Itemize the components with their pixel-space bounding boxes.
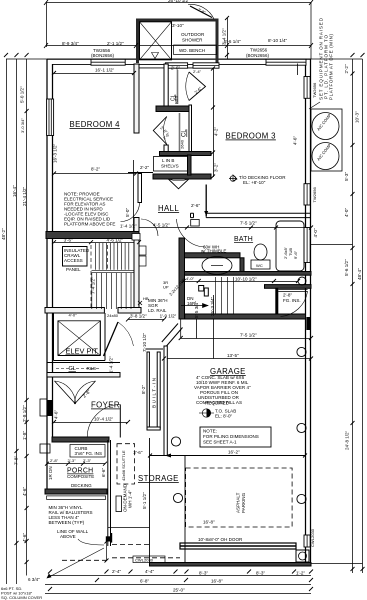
svg-text:5'-0": 5'-0": [125, 208, 130, 217]
svg-text:4'-0": 4'-0": [344, 208, 349, 217]
svg-text:5'-0 1/2": 5'-0 1/2": [20, 86, 25, 103]
svg-text:24'-8 1/2": 24'-8 1/2": [345, 430, 350, 450]
svg-text:WC: WC: [256, 263, 263, 268]
closet rod dashed: [56, 368, 99, 370]
window right wall bedroom3 top: [304, 77, 310, 99]
wall wh closet right: [240, 258, 244, 272]
to slab symbol: [202, 409, 210, 417]
svg-text:FOYER: FOYER: [91, 401, 120, 410]
svg-text:2'-2": 2'-2": [344, 64, 349, 73]
svg-text:3'-8 1/2": 3'-8 1/2": [130, 314, 147, 319]
svg-text:(BON2656): (BON2656): [246, 53, 269, 58]
svg-text:2'-6": 2'-6": [133, 450, 142, 455]
svg-text:16'-4": 16'-4": [12, 185, 17, 197]
door foyer entry arc: [87, 405, 120, 438]
garage diag wall b: [167, 328, 183, 347]
door foyer double arcs: [55, 381, 76, 404]
svg-text:7'-8": 7'-8": [14, 456, 19, 465]
svg-text:ACCESS: ACCESS: [64, 258, 83, 263]
shower right wall: [216, 19, 219, 64]
svg-text:1'-2": 1'-2": [296, 571, 305, 576]
svg-text:2'-8 1/2": 2'-8 1/2": [22, 405, 27, 422]
shower door leaf: [190, 6, 212, 18]
svg-text:2'-3": 2'-3": [68, 458, 77, 463]
wall bedroom3 bottom: [191, 213, 312, 217]
storage window label box: [133, 556, 165, 563]
garage top dim: [181, 338, 311, 340]
built-in top: [145, 348, 163, 350]
svg-text:5'-3": 5'-3": [344, 172, 349, 181]
bottom dim 2: [45, 584, 311, 586]
porch bottom band: [45, 489, 107, 494]
svg-text:2'-8": 2'-8": [283, 293, 292, 298]
svg-text:5'-6 1/2": 5'-6 1/2": [344, 259, 349, 276]
wall top under shower lower line: [136, 67, 219, 69]
shower door arc: [188, 4, 214, 19]
decking flag symbol: [229, 175, 237, 181]
window center 2: [193, 63, 219, 68]
svg-text:FOR PILING DIMENSIONS: FOR PILING DIMENSIONS: [203, 434, 259, 439]
svg-text:2'-6": 2'-6": [191, 203, 200, 208]
wc bowl: [254, 244, 267, 260]
svg-text:PLATFORM ABOVE DFE: PLATFORM ABOVE DFE: [64, 222, 115, 227]
door bedroom4 arcs: [163, 117, 166, 145]
stair dim line y242: [54, 242, 139, 244]
shower top wall: [136, 19, 219, 22]
svg-text:SEE SHEET A-1: SEE SHEET A-1: [203, 440, 237, 445]
svg-text:2'-8": 2'-8": [50, 458, 59, 463]
stair dashed edge: [90, 245, 92, 309]
svg-text:STORAGE: STORAGE: [138, 474, 179, 483]
svg-text:1'-8": 1'-8": [22, 431, 27, 440]
svg-text:7'-5 1/2": 7'-5 1/2": [240, 333, 257, 338]
ac pad: [311, 109, 342, 171]
svg-text:BATH: BATH: [234, 236, 253, 243]
post left porch: [40, 444, 50, 453]
closet2 shelf line: [179, 113, 181, 151]
interior walls: [40, 64, 311, 567]
porch step line: [108, 527, 150, 529]
svg-text:NOTE:: NOTE:: [203, 429, 217, 434]
wall top inner line: [53, 64, 306, 66]
svg-text:2'-1 1/2": 2'-1 1/2": [107, 41, 124, 46]
svg-text:26'-10 1/2": 26'-10 1/2": [168, 0, 190, 3]
wall hall left lower: [134, 218, 139, 310]
storage bottom wall: [150, 563, 312, 567]
door garage arc: [281, 292, 308, 317]
svg-text:7'-4 1/2": 7'-4 1/2": [91, 277, 96, 294]
door garage leaf: [278, 290, 307, 292]
svg-text:8'-3": 8'-3": [256, 571, 265, 576]
built-in bottom: [147, 427, 160, 430]
dashed line y558 right: [112, 557, 180, 559]
exterior walls: [47, 59, 311, 565]
svg-text:OUTDOOR: OUTDOOR: [181, 32, 205, 37]
wc tank: [251, 260, 270, 269]
svg-text:4'-2": 4'-2": [214, 127, 219, 136]
hb symbol: [138, 301, 142, 305]
svg-text:2640: 2640: [180, 139, 185, 149]
svg-text:10'-3": 10'-3": [355, 111, 360, 123]
wall bedroom4 right upper: [134, 64, 139, 133]
bottom dim 3: [45, 593, 311, 595]
svg-text:3'-4 1/2": 3'-4 1/2": [222, 28, 227, 45]
svg-text:WD. BENCH: WD. BENCH: [179, 48, 205, 53]
wall top outer line: [47, 58, 311, 60]
interior dim hall short: [128, 172, 153, 174]
svg-text:24x80: 24x80: [107, 313, 119, 318]
svg-text:1'-4 1/2": 1'-4 1/2": [109, 356, 114, 373]
svg-text:4'-0": 4'-0": [69, 313, 78, 318]
stair lower treads: [92, 273, 131, 309]
porch right wall b: [110, 440, 112, 546]
piling circles: [298, 277, 306, 285]
wall right outer: [310, 59, 312, 565]
svg-text:SQ. COLUMN COVER: SQ. COLUMN COVER: [1, 595, 42, 600]
svg-text:3'-6": 3'-6": [64, 237, 73, 242]
svg-text:REQUIRED: REQUIRED: [205, 401, 230, 406]
window bedroom3: [266, 59, 306, 65]
window right wall bedroom3 bottom: [304, 184, 310, 205]
extension line x311: [310, 3, 312, 60]
dim line right R2: [362, 59, 364, 573]
porch dim line: [47, 463, 105, 465]
svg-text:10'-10 1/2": 10'-10 1/2": [235, 277, 257, 282]
right bath connector: [311, 244, 353, 246]
svg-text:ABOVE: ABOVE: [60, 534, 76, 539]
dashed chase rect: [117, 444, 135, 484]
stairs treads right run: [216, 277, 234, 314]
svg-text:21'-4 1/2": 21'-4 1/2": [22, 186, 27, 206]
garage dim y455: [150, 455, 305, 457]
svg-text:4'-5 1/2": 4'-5 1/2": [153, 223, 170, 228]
shower left wall: [136, 19, 139, 64]
dim line top A: [47, 2, 312, 4]
built-in right line: [157, 352, 160, 428]
fixtures: [138, 109, 342, 504]
svg-text:PLATFORM AT DFE (MIN): PLATFORM AT DFE (MIN): [329, 34, 334, 100]
garage corner box: [296, 550, 309, 562]
storage left wall: [149, 438, 151, 565]
svg-text:(BON2656): (BON2656): [91, 53, 114, 58]
ac comp 1: [312, 113, 339, 140]
svg-text:13'-5": 13'-5": [227, 353, 239, 358]
garage bottom oh door: [180, 543, 296, 549]
window center 1: [165, 63, 187, 68]
svg-text:HALL: HALL: [158, 204, 179, 213]
wall hall left upper: [138, 174, 142, 203]
svg-text:ELEV PIT: ELEV PIT: [66, 347, 99, 356]
leader line of wall: [78, 539, 104, 545]
window right wall bath: [304, 228, 310, 263]
svg-text:UP: UP: [163, 285, 169, 290]
svg-text:5'-6 1/4": 5'-6 1/4": [224, 39, 241, 44]
wall right inner: [305, 64, 307, 562]
svg-text:R&S: R&S: [87, 366, 96, 371]
door bath leaf: [205, 185, 207, 217]
wall elevator top left: [45, 308, 104, 314]
garage dim connector: [180, 319, 182, 338]
wall stub closet2 left: [164, 145, 168, 152]
curb box: [70, 445, 105, 458]
door closet1 chevron: [189, 72, 206, 101]
svg-text:16'-1 1/2": 16'-1 1/2": [95, 68, 115, 73]
svg-text:4'-6": 4'-6": [54, 410, 59, 419]
svg-text:7'-10 1/2": 7'-10 1/2": [142, 332, 147, 352]
svg-text:SHOWER: SHOWER: [182, 38, 203, 43]
interior dim bedroom4 height: [54, 173, 136, 175]
dryer boxes: [199, 286, 204, 292]
svg-text:COMPOSITE: COMPOSITE: [67, 474, 94, 479]
leader 6-3/4: [47, 548, 104, 578]
dim line left L3: [26, 59, 28, 576]
wall garage jog y286: [265, 285, 312, 289]
doors arcs: [55, 117, 308, 438]
elevator inner box: [58, 321, 100, 356]
svg-text:3'-0 3/4": 3'-0 3/4": [20, 118, 25, 133]
door hall-elev arc: [121, 203, 140, 222]
svg-text:EL: +8'-10": EL: +8'-10": [243, 180, 266, 185]
wd bench rect: [174, 45, 217, 55]
niche box hall wall: [132, 234, 140, 241]
svg-text:8'-3": 8'-3": [199, 571, 208, 576]
extension line x46: [46, 3, 48, 48]
svg-text:3'x6" FG. INS: 3'x6" FG. INS: [75, 451, 103, 456]
svg-text:TW2656: TW2656: [250, 48, 268, 53]
wall garage vestibule v: [276, 288, 278, 315]
dashed line y560 left: [62, 559, 106, 561]
svg-text:PANEL: PANEL: [66, 267, 81, 272]
garage vdim x196: [196, 320, 198, 339]
svg-text:2'-4": 2'-4": [193, 69, 202, 74]
door leaf right wall garage: [306, 317, 310, 330]
windows: [47, 59, 311, 547]
svg-text:48'-2": 48'-2": [1, 228, 6, 240]
garage diag wall a: [162, 324, 178, 343]
svg-text:WH 1'-4": WH 1'-4": [128, 490, 133, 508]
door left wall foyer: [47, 400, 53, 416]
svg-text:6'-8": 6'-8": [140, 579, 149, 584]
stair dim line: [128, 318, 164, 320]
svg-text:4'-4": 4'-4": [145, 569, 154, 574]
svg-text:TW2656: TW2656: [312, 82, 317, 98]
door bath arc: [177, 219, 206, 247]
svg-text:FG. INS.: FG. INS.: [283, 298, 301, 303]
svg-text:1'-9 1/2": 1'-9 1/2": [160, 314, 177, 319]
svg-text:8'-10 1/4": 8'-10 1/4": [268, 38, 288, 43]
svg-text:CL: CL: [69, 366, 77, 372]
svg-text:2'-6": 2'-6": [171, 66, 180, 71]
garage corner circle: [299, 552, 307, 560]
wall closet bottom: [47, 373, 120, 378]
svg-text:EL: 8'-0": EL: 8'-0": [215, 414, 233, 419]
stair arrow: [181, 305, 208, 307]
svg-text:2'-2": 2'-2": [140, 165, 149, 170]
svg-text:2'-3": 2'-3": [83, 458, 92, 463]
dim line x213: [213, 68, 215, 177]
door hall chevron: [168, 179, 189, 189]
wall foyer bottom: [52, 437, 109, 442]
stair upper treads: [96, 243, 129, 270]
shower drain triangle: [152, 53, 159, 59]
elec panel boxes: [139, 246, 146, 255]
garage vdim x213: [213, 295, 215, 359]
window left wall bedroom4: [47, 99, 54, 136]
shower hatch X: [140, 22, 172, 60]
door elev leaf: [104, 322, 119, 356]
svg-text:4'-6": 4'-6": [22, 487, 27, 496]
wall left exterior inner: [52, 64, 54, 437]
dim line right R1: [352, 59, 354, 573]
dim line left L2: [16, 59, 18, 584]
porch rail: [47, 496, 106, 500]
elevator shaft left wall: [54, 313, 59, 361]
wall jog bedroom3 ne: [297, 64, 299, 76]
storage right wall: [184, 456, 186, 563]
svg-text:CL: CL: [182, 129, 188, 137]
foyer dim line: [54, 422, 128, 424]
svg-text:R&S: R&S: [174, 95, 179, 104]
shower hatch box: [140, 22, 172, 60]
linen closet box: [154, 157, 188, 172]
dim line y281: [184, 281, 298, 283]
vanity box: [191, 220, 200, 227]
wall vestibule stub h: [153, 174, 211, 179]
outdoor shower bumpout: [136, 4, 219, 63]
elevator hatch X: [58, 321, 100, 356]
door foyer entry leaf: [119, 405, 121, 438]
elevator shaft right wall: [100, 313, 105, 361]
note piling box: [200, 427, 271, 447]
svg-text:48'-4": 48'-4": [357, 268, 362, 280]
wall closet below elev top: [47, 362, 120, 364]
window right wall storage: [304, 535, 310, 547]
dim line top C: [6, 58, 363, 60]
svg-text:25'-3 3/4": 25'-3 3/4": [210, 296, 215, 316]
bottom right connector: [311, 563, 363, 565]
svg-text:5'-5 3/4": 5'-5 3/4": [194, 301, 199, 318]
tub: [276, 221, 304, 271]
closet2 right wall: [189, 105, 192, 152]
dim ext line x133.7: [133, 160, 135, 235]
wall closet divider band: [156, 106, 190, 112]
bottom dim 1: [50, 575, 311, 577]
crawl access box: [63, 247, 88, 267]
wall bath bottom: [184, 272, 311, 276]
wall bath-wh: [179, 253, 240, 258]
svg-text:4'-0": 4'-0": [186, 276, 195, 281]
svg-text:CWL2030: CWL2030: [135, 558, 154, 563]
svg-text:1R DN: 1R DN: [48, 466, 53, 480]
svg-text:16'-2": 16'-2": [228, 450, 240, 455]
svg-text:6 3/4": 6 3/4": [28, 577, 40, 582]
dim line left L1: [6, 59, 8, 584]
svg-text:8'-9 3/4": 8'-9 3/4": [62, 41, 79, 46]
svg-text:16'-3 1/2": 16'-3 1/2": [53, 143, 58, 163]
ac comp 2: [312, 143, 339, 170]
svg-text:10'-8x8'-0" OH DOOR: 10'-8x8'-0" OH DOOR: [198, 537, 243, 542]
svg-text:4'-6": 4'-6": [293, 136, 298, 145]
svg-text:4'-6": 4'-6": [22, 533, 27, 542]
closet1 shelf line: [177, 70, 179, 104]
svg-text:42x66 SCUTTLE: 42x66 SCUTTLE: [121, 450, 126, 481]
svg-text:7'-5 1/2": 7'-5 1/2": [240, 221, 257, 226]
wall elevator top right: [118, 308, 141, 314]
svg-text:1'-4 1/2": 1'-4 1/2": [120, 224, 137, 229]
dashed post-storage h: [112, 544, 150, 546]
svg-text:ASPHALT: ASPHALT: [236, 492, 241, 513]
svg-text:BETWEEN (TYP): BETWEEN (TYP): [49, 520, 85, 525]
porch post: [40, 444, 122, 563]
svg-text:8'-2": 8'-2": [91, 167, 100, 172]
svg-text:5'-1 1/2": 5'-1 1/2": [142, 492, 147, 509]
svg-text:4'-0": 4'-0": [313, 228, 318, 237]
wall left exterior outer: [46, 59, 48, 494]
svg-text:16'-8": 16'-8": [203, 520, 215, 525]
door hall stair arc: [141, 219, 158, 236]
leader set equipment: [309, 102, 320, 109]
stair break line: [92, 269, 135, 271]
interior dim bedroom4 width: [54, 73, 134, 75]
svg-text:2'-4": 2'-4": [112, 569, 121, 574]
svg-text:DECKING: DECKING: [71, 483, 92, 488]
dim line top B: [47, 45, 312, 47]
wall closet1 left: [164, 64, 168, 106]
svg-text:LD. RAIL: LD. RAIL: [148, 308, 167, 313]
window TW2656 bedroom4: [91, 59, 125, 65]
svg-text:4'-6 1/2": 4'-6 1/2": [107, 237, 124, 242]
wall wh-stairs vertical: [179, 238, 185, 319]
svg-text:BEDROOM 3: BEDROOM 3: [226, 132, 276, 141]
svg-text:9'-6": 9'-6": [293, 250, 298, 259]
svg-text:3'-10": 3'-10": [172, 23, 184, 28]
svg-text:6'-6": 6'-6": [101, 468, 106, 477]
svg-text:3'-2": 3'-2": [214, 163, 219, 172]
dim line shower x227: [227, 18, 229, 59]
svg-text:w/ THIMBLE: w/ THIMBLE: [201, 249, 226, 254]
wall garage left: [164, 346, 167, 456]
svg-text:8'-2": 8'-2": [141, 385, 146, 394]
porch right wall a: [107, 440, 109, 546]
svg-text:10'-4 1/2": 10'-4 1/2": [94, 417, 114, 422]
garage dim 13-5: [164, 358, 311, 360]
built-in left line: [147, 352, 149, 428]
svg-text:L IN B: L IN B: [162, 158, 174, 163]
dashed parking rect: [62, 444, 292, 561]
svg-text:CWL2030: CWL2030: [310, 528, 315, 547]
water heater: [202, 257, 232, 275]
wall bedroom4 bottom: [46, 232, 139, 239]
svg-text:PARKING: PARKING: [241, 492, 246, 513]
stairs: [91, 243, 234, 314]
bath dim line: [139, 227, 311, 229]
svg-text:TW2656: TW2656: [312, 186, 317, 202]
wall garage top: [185, 314, 306, 319]
svg-text:16'-8": 16'-8": [211, 579, 223, 584]
svg-text:25'-0": 25'-0": [173, 588, 185, 593]
wall vestibule stub v: [188, 155, 192, 175]
wall linen top: [160, 152, 212, 156]
foyer door step rect: [40, 399, 47, 416]
svg-text:BEDROOM 4: BEDROOM 4: [70, 120, 121, 129]
door bedroom4 chevron: [153, 117, 167, 145]
svg-text:SHELVS: SHELVS: [161, 164, 179, 169]
elevator shaft bottom wall: [54, 356, 106, 361]
wh unit rect: [116, 496, 122, 512]
